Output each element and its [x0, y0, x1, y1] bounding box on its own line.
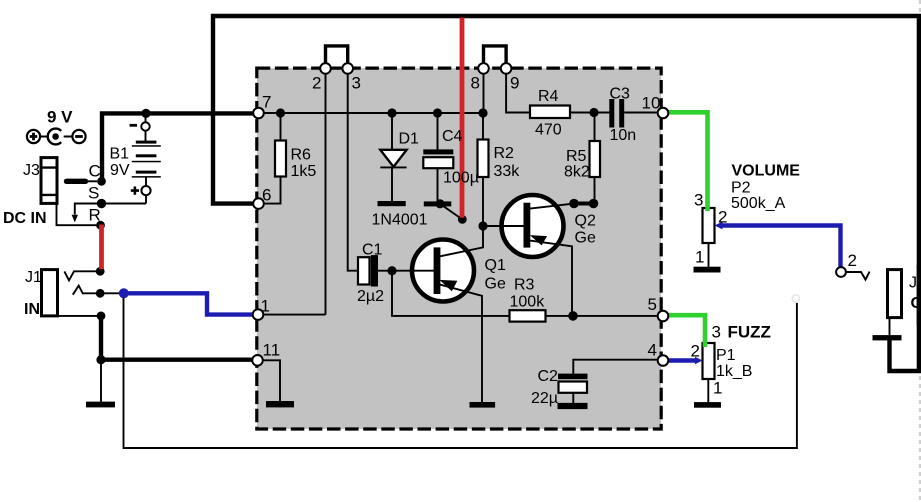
diode D1 anode-side bottom bar [378, 201, 406, 206]
wire red J3 R contact to J1 tip [99, 225, 104, 270]
svg-text:C4: C4 [442, 128, 463, 145]
junction J3 S contact [97, 199, 106, 208]
svg-text:P2: P2 [731, 180, 751, 197]
ground bar below Q1 emitter [470, 402, 496, 408]
svg-text:R4: R4 [538, 88, 559, 105]
svg-text:3: 3 [694, 191, 703, 210]
thick wire pin6 around top to output jack ground [213, 16, 919, 371]
wire right edge overlay segment [917, 265, 921, 325]
svg-text:2: 2 [718, 208, 727, 227]
wire Q1 emitter diagonal down to ground [440, 285, 482, 402]
wire battery leads and S contact link [102, 113, 146, 203]
jack J3 body [41, 158, 57, 204]
DC plug symbol minus pole [72, 130, 85, 143]
subcircuit module box [257, 68, 661, 429]
svg-text:Q2: Q2 [575, 213, 596, 230]
svg-text:1: 1 [713, 379, 722, 398]
wire C2 to pin4 and C2 leads [573, 360, 657, 403]
junction R5 top on R4-C3 line [589, 108, 598, 117]
wire pin8 vertical [483, 73, 485, 114]
svg-text:1k5: 1k5 [291, 163, 317, 180]
wire P1 ground lead [707, 379, 709, 402]
svg-text:9 V: 9 V [47, 108, 73, 127]
wire J1 ring node to input blue node [105, 292, 120, 294]
ghost terminal circle at output ring wire [792, 295, 799, 302]
wire J1 sleeve ground lead [100, 360, 102, 402]
svg-text:C1: C1 [362, 242, 383, 259]
junction D1 top [387, 108, 396, 117]
svg-text:P1: P1 [716, 347, 736, 364]
capacitor C4 bottom bar [424, 201, 452, 206]
svg-text:10n: 10n [610, 127, 637, 144]
svg-text:10: 10 [642, 94, 661, 113]
jack J3 switch arrow [72, 215, 78, 223]
wire R6 leads and pin6 link [262, 113, 281, 204]
ground bar below C2 [558, 403, 588, 409]
wire pin1 to pin2 line [262, 314, 326, 316]
junction J3 C contact [97, 177, 106, 186]
wire J3 sleeve to R contact [57, 203, 101, 225]
ground bar below P2 [694, 267, 721, 273]
wire DC plug symbol links [40, 136, 72, 138]
capacitor C1 body [358, 257, 370, 284]
svg-text:D1: D1 [399, 131, 420, 148]
wire blue P2 wiper to output jack tip [720, 226, 841, 269]
svg-text:R5: R5 [566, 148, 587, 165]
svg-text:FUZZ: FUZZ [728, 323, 771, 342]
svg-text:100k: 100k [510, 294, 546, 311]
svg-text:DC IN: DC IN [3, 210, 47, 227]
svg-text:C3: C3 [610, 86, 631, 103]
pin 7 terminal [253, 108, 264, 119]
output jack tip terminal circle [836, 267, 846, 277]
wire Q1 collector diagonal up to R2 bottom node [440, 226, 483, 256]
transistor Q2 emitter arrow [530, 235, 547, 245]
svg-text:6: 6 [262, 186, 271, 205]
wire Q1 base node down to R3 and R3 to Q2 emitter node to pin5 [392, 271, 657, 316]
svg-text:33k: 33k [494, 163, 521, 180]
pin 6 terminal [253, 198, 264, 209]
pin 2 terminal [320, 63, 331, 74]
capacitor C4 body [423, 157, 453, 168]
svg-text:2µ2: 2µ2 [357, 288, 384, 305]
battery plus terminal circle [141, 186, 150, 195]
wire J1 sleeve line [58, 315, 98, 317]
wire P2 ground lead [708, 243, 710, 267]
junction J3 R contact [96, 221, 105, 230]
pin 8 terminal [478, 63, 489, 74]
pin 9 terminal [501, 63, 512, 74]
svg-text:470: 470 [535, 122, 562, 139]
wire J2 tip lever [846, 272, 870, 280]
svg-text:1N4001: 1N4001 [372, 212, 428, 229]
wire pin9 vertical to R4 [506, 73, 530, 113]
svg-text:8: 8 [471, 74, 480, 93]
wire red top rail to C4/D1 node [460, 18, 465, 218]
wire pin3 vertical to C1 [348, 73, 358, 271]
junction J1 ground [96, 355, 105, 364]
wire J3 arm thin lead [85, 180, 97, 182]
transistor Q1 emitter arrow [440, 280, 458, 291]
svg-text:R2: R2 [494, 145, 515, 162]
svg-text:9: 9 [510, 74, 519, 93]
wire C1 to Q1 base [378, 270, 434, 272]
junction J1 tip node [96, 267, 105, 276]
jumper link pins 8-9 [484, 46, 507, 63]
svg-text:J3: J3 [23, 162, 40, 179]
wire green pin5 to P1 top [668, 315, 705, 347]
capacitor C2 body [559, 382, 588, 393]
capacitor C1 plate bar [371, 255, 378, 286]
junction pair Q2 collector to R5 [569, 199, 598, 209]
junction C4 bottom bar [435, 199, 444, 208]
ground bar at J2 sleeve [873, 335, 902, 340]
wire R5 leads [594, 113, 596, 204]
svg-text:Ge: Ge [485, 276, 506, 293]
svg-text:11: 11 [263, 341, 281, 360]
transistor Q2 base bar [524, 203, 531, 248]
DC plug symbol center pole [48, 129, 61, 145]
svg-text:9V: 9V [110, 162, 130, 179]
ground bar below J1 [86, 402, 115, 408]
wire J2 sleeve lead [889, 318, 891, 336]
wire C4 leads [437, 113, 439, 202]
wire J1 ring lever [73, 286, 96, 295]
resistor R2 [478, 140, 489, 178]
svg-text:C: C [89, 162, 101, 181]
DC plug symbol plus pole [27, 130, 40, 143]
transistor Q1 body circle [412, 240, 474, 302]
battery B1 plates [132, 141, 161, 178]
P2 wiper arrow [715, 222, 723, 230]
svg-text:1k_B: 1k_B [716, 363, 752, 380]
wire Q2 emitter diagonal and vertical [530, 241, 572, 316]
junction R2 top / pin8 [478, 108, 487, 117]
pin 5 terminal [658, 311, 669, 322]
wire blue input node to pin1 [124, 293, 252, 314]
resistor R6 [275, 141, 286, 177]
battery minus sign [130, 124, 137, 127]
wire D1 cathode line [380, 166, 406, 168]
jumper link pins 2-3 [326, 46, 348, 63]
svg-text:1: 1 [695, 248, 704, 267]
junction C4 top [433, 108, 442, 117]
wire green pin10 to P2 top [668, 112, 708, 211]
wire pin11 to ground [262, 360, 280, 401]
svg-text:4: 4 [648, 341, 657, 360]
ground bar below P1 [694, 402, 721, 408]
wire blue pin4 to P1 wiper [668, 358, 695, 362]
junction J1 sleeve node [97, 312, 106, 321]
junction C1 out / Q1 base [387, 266, 396, 275]
svg-text:8k2: 8k2 [564, 164, 590, 181]
wire top rail pin7 to R2 [258, 112, 483, 114]
svg-text:22µ: 22µ [531, 390, 558, 407]
pin 1 terminal [253, 309, 264, 320]
wire pin2 vertical [325, 73, 327, 315]
svg-text:7: 7 [262, 93, 271, 112]
svg-text:2: 2 [691, 342, 700, 361]
svg-text:R6: R6 [291, 147, 312, 164]
capacitor C4 top plate [423, 149, 453, 154]
thick wire battery minus / C contact to pin7 [102, 113, 254, 181]
node input blue dot [119, 288, 129, 298]
thick wire J1 sleeve to pin11 [101, 316, 254, 360]
junction Q2 emitter / R3 / pin5 [568, 311, 578, 321]
svg-text:5: 5 [648, 295, 657, 314]
resistor R4 [530, 106, 570, 119]
wire J1 tip lever [64, 271, 96, 280]
junction R2 bottom / Q2 base [478, 221, 487, 230]
capacitor C2 top plate [558, 374, 588, 380]
svg-text:3: 3 [352, 74, 361, 93]
svg-text:B1: B1 [110, 146, 130, 163]
P1 wiper arrow [695, 357, 703, 364]
svg-text:2: 2 [312, 74, 321, 93]
wire R2 leads [482, 113, 484, 226]
svg-text:R: R [89, 206, 101, 225]
svg-text:2: 2 [848, 251, 857, 270]
jack J3 C contact arm [67, 179, 86, 184]
junction red wire end node [458, 215, 467, 224]
wire R4 to C3 to pin10 [570, 112, 659, 114]
wire D1 leads [391, 113, 393, 201]
jack J1 body [42, 270, 58, 316]
wire input node to output jack ring (long bottom run) [124, 293, 797, 448]
capacitor C3 plates [612, 99, 622, 128]
resistor R3 [510, 310, 546, 321]
svg-text:500k_A: 500k_A [731, 195, 786, 212]
resistor R5 [590, 141, 601, 177]
wire C4 bar diagonal to red node [440, 204, 462, 220]
svg-text:3: 3 [712, 323, 721, 342]
svg-text:Ge: Ge [575, 230, 596, 247]
potentiometer P1 body [703, 343, 715, 379]
svg-text:1: 1 [261, 297, 270, 316]
jack J2 body [888, 270, 902, 318]
svg-text:VOLUME: VOLUME [732, 163, 801, 180]
transistor Q1 base bar [434, 247, 441, 294]
junction battery minus tap [141, 109, 150, 118]
ground bar below pin11 [266, 401, 294, 407]
wire Q2 collector diagonal [530, 204, 574, 209]
battery minus terminal circle [141, 122, 149, 130]
svg-text:R3: R3 [514, 277, 535, 294]
junction R6 top [276, 108, 285, 117]
svg-text:C2: C2 [538, 368, 559, 385]
svg-text:100µ: 100µ [443, 170, 479, 187]
battery plus sign [131, 187, 139, 195]
potentiometer P2 body [703, 208, 715, 243]
svg-text:IN: IN [24, 301, 40, 318]
svg-text:Q1: Q1 [485, 257, 506, 274]
pin 10 terminal [658, 108, 669, 119]
transistor Q2 body circle [502, 195, 564, 257]
svg-text:S: S [88, 184, 99, 203]
diode D1 [380, 150, 406, 167]
wire J3 S contact line [75, 204, 97, 215]
pin 4 terminal [658, 355, 669, 366]
pin 11 terminal [252, 355, 263, 366]
pin 3 terminal [342, 63, 353, 74]
svg-text:J1: J1 [25, 269, 42, 286]
wire R2 node to Q2 base [483, 225, 524, 227]
junction J1 ring node [96, 289, 105, 298]
